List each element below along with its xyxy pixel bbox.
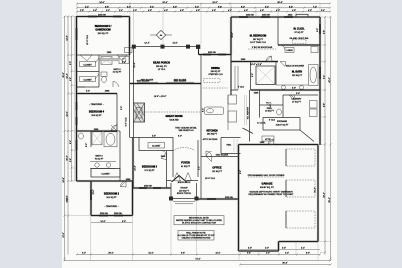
svg-text:3'-4": 3'-4" — [93, 10, 97, 12]
svg-text:10'-0" CLG: 10'-0" CLG — [205, 178, 215, 180]
bedroom4 door — [111, 125, 117, 131]
door bedroom4 swing — [112, 124, 118, 131]
hall wall right — [129, 55, 131, 138]
window mbath right — [319, 67, 321, 79]
wall mbed top — [231, 16, 278, 18]
svg-text:4'-0": 4'-0" — [228, 10, 232, 12]
porch column 1 — [132, 45, 136, 49]
svg-text:70 SQ FT: 70 SQ FT — [95, 158, 105, 160]
wall bedroom3 bottom — [133, 187, 171, 189]
arc garage entry — [268, 139, 274, 145]
linen box — [285, 48, 294, 53]
left dim line outer — [64, 16, 66, 261]
svg-text:165 SQ FT: 165 SQ FT — [207, 134, 218, 136]
svg-text:20'-0": 20'-0" — [108, 253, 113, 255]
svg-text:CLOSET: CLOSET — [83, 64, 92, 66]
shelf header bath3 — [100, 58, 118, 61]
door closet1 swing — [80, 55, 92, 61]
exterior wall gray band — [77, 16, 321, 251]
svg-text:5'-0": 5'-0" — [252, 73, 254, 77]
svg-text:S. CLOS.: S. CLOS. — [257, 122, 266, 124]
svg-text:171 SQ FT: 171 SQ FT — [144, 170, 155, 172]
svg-text:11'-8": 11'-8" — [172, 42, 177, 44]
closet bottom — [77, 86, 100, 88]
svg-text:~ TEMPERED ~: ~ TEMPERED ~ — [104, 206, 120, 208]
window bedroom3 bottom 2 — [153, 187, 161, 189]
wall east of bath2 — [119, 131, 121, 181]
office west wall — [200, 141, 202, 199]
porch column 4 — [196, 45, 200, 49]
diamond marker — [150, 30, 172, 39]
mbed builtin dashed — [248, 48, 276, 50]
wall garage top — [239, 144, 319, 146]
svg-text:110 SQ FT: 110 SQ FT — [210, 71, 221, 73]
stoop bottom — [171, 198, 197, 200]
svg-text:ISLAND / BUILT-INS: ISLAND / BUILT-INS — [290, 37, 309, 40]
wall garage left — [238, 145, 240, 252]
pan walls — [221, 138, 241, 154]
svg-text:3050 SH: 3050 SH — [114, 213, 122, 215]
top dim line 3 — [77, 11, 330, 13]
svg-text:5'-0": 5'-0" — [82, 253, 86, 255]
svg-text:12' CLG: 12' CLG — [158, 69, 166, 71]
svg-text:24'-8": 24'-8" — [63, 177, 65, 182]
arc pwd — [266, 103, 271, 108]
pan shelves — [234, 139, 237, 152]
garage door dashed 2 — [286, 180, 315, 197]
svg-text:11'-4": 11'-4" — [67, 195, 69, 200]
door garage entry swing — [268, 139, 274, 145]
svg-text:41 SQ FT: 41 SQ FT — [181, 166, 191, 168]
svg-text:M. BEDROOM: M. BEDROOM — [250, 35, 267, 38]
svg-text:ALL WALLS TO BE SEALED UP TO 1: ALL WALLS TO BE SEALED UP TO 1/2" — [177, 234, 214, 237]
wall bedroom2 right — [132, 181, 134, 216]
fridge — [228, 95, 237, 104]
wall office bottom — [197, 198, 239, 200]
svg-text:4'-0": 4'-0" — [180, 10, 184, 12]
window bedroom2 left — [90, 190, 92, 200]
door pwd swing — [266, 103, 271, 108]
bath3 vanity — [119, 57, 129, 64]
svg-text:21'-4": 21'-4" — [315, 187, 317, 192]
svg-text:9'-8": 9'-8" — [181, 253, 185, 255]
tub — [309, 65, 319, 86]
extension verticals top — [77, 4, 320, 45]
svg-text:3050 SH: 3050 SH — [100, 213, 108, 215]
great room south wall — [130, 137, 139, 139]
mbed right wall — [277, 17, 279, 45]
svg-text:8'-0": 8'-0" — [292, 88, 296, 90]
svg-text:19'-4": 19'-4" — [162, 2, 167, 4]
svg-text:SEE SHEET A-6: SEE SHEET A-6 — [178, 129, 194, 132]
window bedroom4 left 1 — [76, 102, 78, 110]
wall dining top — [199, 54, 232, 56]
stoop steps — [173, 202, 195, 204]
svg-text:42'-0": 42'-0" — [329, 77, 331, 82]
stoop right wall — [196, 183, 198, 199]
wall bedroom2 bottom — [91, 215, 133, 217]
arc mbed — [266, 56, 272, 62]
stoop column left — [169, 197, 173, 201]
svg-text:MECHANICAL NOTE:: MECHANICAL NOTE: — [189, 216, 210, 219]
left ticks — [64, 16, 73, 260]
top dim line 1 — [77, 3, 330, 5]
svg-text:24'-0": 24'-0" — [99, 2, 104, 4]
svg-text:161 SQ FT: 161 SQ FT — [106, 197, 117, 199]
porch label box — [125, 48, 133, 53]
mechanical note box — [174, 216, 224, 225]
svg-text:12'-8": 12'-8" — [135, 165, 137, 170]
svg-text:BEDROOM 4: BEDROOM 4 — [89, 111, 105, 114]
svg-text:12'-0": 12'-0" — [67, 111, 69, 116]
svg-text:35'-8": 35'-8" — [63, 72, 65, 77]
range — [228, 111, 237, 122]
window bedroom2 bottom 1 — [99, 215, 108, 217]
wall house north behind porch — [130, 83, 201, 85]
svg-text:CLOSET: CLOSET — [152, 146, 161, 148]
svg-text:5'-0": 5'-0" — [86, 91, 90, 93]
pwd walls — [260, 90, 284, 118]
svg-text:5050 SLIDER: 5050 SLIDER — [216, 155, 229, 157]
svg-text:5'-8": 5'-8" — [70, 158, 72, 162]
right ticks — [324, 16, 332, 260]
laundry walls — [283, 95, 318, 118]
svg-text:12'-4": 12'-4" — [134, 62, 136, 67]
svg-text:12'-4": 12'-4" — [144, 42, 149, 44]
arc bedroom2 — [121, 181, 127, 187]
svg-text:187 SQ FT: 187 SQ FT — [253, 39, 264, 41]
wall garage bottom right — [279, 241, 319, 243]
svg-text:4'-0": 4'-0" — [285, 253, 289, 255]
vanity — [276, 84, 308, 86]
bath2 tub — [104, 132, 117, 147]
window bath2 left — [76, 140, 78, 150]
great room west wall lower — [133, 122, 135, 138]
svg-text:418.87 SQ. FT.: 418.87 SQ. FT. — [260, 187, 274, 189]
mclos bottom wall — [278, 44, 320, 46]
wall garage right — [317, 145, 319, 242]
left dim line extra — [74, 16, 76, 181]
svg-text:11'-0": 11'-0" — [215, 253, 220, 255]
svg-text:WALK-IN SHOWER: WALK-IN SHOWER — [286, 65, 305, 68]
window mbed right upper — [319, 24, 321, 34]
garage door dashed 3 — [286, 211, 315, 228]
svg-text:74'-0": 74'-0" — [195, 259, 200, 261]
bath3 door arc — [113, 82, 119, 88]
svg-text:32'-4": 32'-4" — [323, 192, 325, 197]
bedroom4 bottom wall — [77, 130, 118, 132]
storage diagonal — [300, 130, 314, 142]
wall garage step — [278, 242, 280, 252]
hall bottom wall — [77, 86, 86, 88]
bath3 toilet — [101, 72, 107, 77]
svg-text:4'-0": 4'-0" — [148, 10, 152, 12]
bottom ticks — [64, 254, 332, 262]
door mbed swing — [266, 56, 272, 62]
kitchen north counter dashed — [203, 87, 228, 89]
window b5 top 1 — [88, 16, 97, 18]
closet3 label box — [148, 143, 165, 149]
closet2 door — [95, 74, 99, 79]
svg-text:9'-0": 9'-0" — [317, 28, 319, 32]
svg-text:3'-4": 3'-4" — [122, 62, 126, 64]
svg-text:3050 SH: 3050 SH — [262, 14, 270, 16]
svg-text:BEDROOM 5 /: BEDROOM 5 / — [95, 25, 112, 28]
closet3 box — [139, 138, 173, 151]
svg-text:110 SQ FT: 110 SQ FT — [292, 75, 303, 77]
svg-text:30'-8": 30'-8" — [277, 2, 282, 4]
wall left outer — [76, 16, 78, 181]
extension horizontals right — [318, 17, 331, 253]
bedroom3 right wall — [166, 151, 168, 189]
svg-text:12'-4": 12'-4" — [67, 73, 69, 78]
svg-text:BEDROOM 2: BEDROOM 2 — [104, 192, 120, 195]
tick marks top — [76, 3, 331, 13]
door bedroom3 swing — [161, 153, 167, 160]
wall right outer — [319, 17, 321, 145]
svg-text:5'-8": 5'-8" — [152, 136, 156, 138]
svg-text:47 SQ FT: 47 SQ FT — [292, 101, 302, 103]
foyer left wall — [172, 151, 174, 178]
right dim line outer — [330, 17, 332, 261]
office top wall — [201, 156, 239, 158]
svg-text:4'-0": 4'-0" — [308, 10, 312, 12]
foyer arch dashes — [173, 148, 195, 151]
svg-text:OFFICE: OFFICE — [212, 166, 221, 169]
svg-text:REAR PORCH: REAR PORCH — [153, 62, 170, 65]
porch column 3 — [186, 45, 190, 49]
wall kitchen west — [200, 55, 202, 142]
svg-text:16'-0" x 5'-8": 16'-0" x 5'-8" — [250, 64, 262, 66]
svg-text:8'-0": 8'-0" — [306, 253, 310, 255]
chevron side walls — [167, 180, 199, 182]
porch left edge — [133, 47, 135, 84]
svg-text:KITCHEN: KITCHEN — [206, 129, 217, 132]
svg-text:419.87 SQ FT: 419.87 SQ FT — [276, 124, 290, 126]
pwd toilet — [277, 109, 282, 115]
svg-text:9'-8": 9'-8" — [218, 6, 222, 8]
window dining top 1 — [203, 54, 211, 56]
office door arc — [206, 151, 212, 157]
great room dashed ceiling line — [134, 111, 200, 113]
svg-text:8'-4": 8'-4" — [202, 108, 204, 112]
wall finish note box — [178, 230, 214, 240]
svg-text:239 SQ. FT.: 239 SQ. FT. — [156, 66, 168, 68]
svg-text:9' CLG: 9' CLG — [238, 87, 245, 89]
svg-text:4'-0": 4'-0" — [266, 253, 270, 255]
arc bedroom4 — [111, 125, 117, 131]
svg-text:6050 SLIDER: 6050 SLIDER — [137, 81, 150, 83]
svg-text:STORAGE: STORAGE — [277, 120, 288, 123]
bath2 shower — [92, 132, 102, 145]
svg-text:3'-0": 3'-0" — [296, 93, 300, 95]
svg-text:WATER HEATER & HVAC UNIT TO BE: WATER HEATER & HVAC UNIT TO BE LOCATED — [176, 219, 222, 222]
window mbed top 1 — [239, 16, 248, 18]
right dim line inner — [324, 17, 326, 255]
garage door dashed 1 — [286, 149, 315, 166]
bedroom4 right wall — [116, 94, 118, 132]
svg-text:6'-8": 6'-8" — [105, 6, 109, 8]
window mbed top 2 — [261, 16, 270, 18]
arc bedroom3 — [161, 151, 167, 157]
bedroom2 top wall — [91, 180, 133, 182]
arc laundry — [289, 95, 294, 100]
svg-text:41 SQ FT: 41 SQ FT — [113, 72, 123, 74]
svg-text:3050 SH: 3050 SH — [225, 197, 233, 199]
svg-text:19'-0" x 20'-0": 19'-0" x 20'-0" — [154, 96, 167, 98]
svg-text:8'-8": 8'-8" — [289, 6, 293, 8]
svg-text:IN ATTIC SPACE BY CONTRACTOR: IN ATTIC SPACE BY CONTRACTOR — [182, 222, 216, 225]
svg-text:154 SQ FT: 154 SQ FT — [91, 115, 102, 117]
wall mbed left — [230, 17, 232, 55]
svg-text:M. CLOS.: M. CLOS. — [293, 27, 304, 30]
window bedroom5 left — [76, 28, 78, 40]
svg-text:9'-4": 9'-4" — [150, 6, 154, 8]
kitchen diagonal wall — [243, 128, 254, 134]
svg-text:12'-0": 12'-0" — [63, 232, 65, 237]
window bedroom3 bottom 1 — [139, 187, 147, 189]
closet bath2 box — [91, 169, 120, 178]
stoop column right — [195, 197, 199, 201]
svg-text:9'-8": 9'-8" — [247, 253, 251, 255]
garage door tick 2 — [285, 180, 287, 197]
svg-text:PAN.: PAN. — [227, 143, 232, 146]
wall mclos top — [278, 16, 320, 18]
wall step to bedroom2 — [77, 180, 92, 182]
porch column 2 — [161, 45, 165, 49]
svg-text:WALL FINISH NOTE:: WALL FINISH NOTE: — [186, 231, 206, 234]
stoop left wall — [170, 183, 172, 199]
bottom dim line 1 — [77, 254, 320, 256]
svg-text:CLOSET: CLOSET — [83, 79, 92, 81]
svg-text:97 SQ FT: 97 SQ FT — [294, 32, 304, 34]
svg-text:3050 SH: 3050 SH — [246, 14, 254, 16]
svg-text:5'-0": 5'-0" — [70, 61, 72, 65]
closet divider — [77, 71, 100, 73]
svg-text:GARAGE: GARAGE — [262, 182, 273, 185]
svg-text:STEPPED CLG: STEPPED CLG — [208, 74, 223, 76]
svg-text:9'-0": 9'-0" — [173, 6, 177, 8]
bottom dim line 2 — [65, 260, 331, 262]
svg-text:191 SQ. FT.: 191 SQ. FT. — [97, 33, 109, 35]
garage door tick 3 — [285, 211, 287, 228]
extension horizontals left — [65, 17, 91, 216]
svg-text:8'-8": 8'-8" — [323, 103, 325, 107]
svg-text:ATTIC ACCESS: ATTIC ACCESS — [203, 138, 218, 141]
svg-text:6'-0": 6'-0" — [178, 136, 182, 138]
svg-text:21'-0": 21'-0" — [148, 253, 153, 255]
left dim line mid — [67, 16, 69, 255]
svg-text:VAULTED: VAULTED — [169, 118, 179, 121]
wall bedroom3 left — [132, 138, 134, 189]
corridor wall — [120, 180, 133, 182]
hall wall left — [250, 62, 252, 91]
great room west wall upper — [133, 84, 135, 104]
svg-text:REQUIREMENT W/ OWNER PRIOR TO: REQUIREMENT W/ OWNER PRIOR TO CONST. — [248, 194, 293, 196]
wall porch corner connector — [198, 47, 200, 55]
svg-text:M. BATH: M. BATH — [292, 70, 302, 73]
svg-text:30'-8": 30'-8" — [282, 263, 287, 265]
window office bottom — [207, 198, 216, 200]
extension verticals bottom — [91, 200, 319, 261]
mbed bottom wall — [231, 61, 278, 63]
svg-text:BATH 2: BATH 2 — [95, 155, 103, 158]
svg-text:GAMEROOM: GAMEROOM — [95, 28, 110, 31]
svg-text:6'-4": 6'-4" — [70, 140, 72, 144]
walkin closet X — [256, 66, 275, 85]
window bedroom2 bottom 2 — [114, 215, 123, 217]
svg-text:13'-4" CLG: 13'-4" CLG — [87, 35, 89, 45]
svg-text:W.I. PANTRY: W.I. PANTRY — [246, 106, 249, 119]
left dim line inner — [71, 16, 73, 181]
svg-text:3'-0": 3'-0" — [265, 248, 269, 250]
closet1 door — [95, 58, 99, 63]
svg-text:6'-0": 6'-0" — [127, 6, 131, 8]
door closet2 swing — [117, 55, 127, 61]
svg-text:10'-0": 10'-0" — [212, 2, 217, 4]
svg-text:~ TEMPERED ~: ~ TEMPERED ~ — [89, 104, 105, 106]
svg-text:5' BLT-IN BOOKCASE: 5' BLT-IN BOOKCASE — [252, 46, 273, 49]
svg-text:3'-0": 3'-0" — [282, 248, 286, 250]
bottom extra line right — [240, 264, 331, 266]
svg-text:4'-0": 4'-0" — [196, 10, 200, 12]
svg-text:6050 SLIDER: 6050 SLIDER — [174, 81, 187, 83]
svg-text:DINING: DINING — [211, 67, 220, 70]
bedroom4 top wall — [77, 93, 118, 95]
bedroom5 bottom wall — [77, 54, 130, 56]
door mbath swing — [280, 62, 286, 67]
niche mclos top — [296, 14, 308, 17]
bath2 top wall — [77, 130, 121, 132]
svg-text:FOYER: FOYER — [181, 161, 190, 164]
svg-text:9'-0": 9'-0" — [199, 166, 201, 170]
svg-text:7'-0": 7'-0" — [313, 6, 317, 8]
svg-text:UNLESS OTHERWISE NOTED: UNLESS OTHERWISE NOTED — [182, 238, 211, 240]
svg-text:19 SQ FT: 19 SQ FT — [265, 111, 275, 113]
bath2 wc — [79, 133, 84, 139]
bottom small row right — [240, 249, 320, 251]
svg-text:3050 SH: 3050 SH — [144, 186, 152, 188]
svg-text:BRICK PORCH: BRICK PORCH — [177, 193, 192, 195]
svg-text:4'-0": 4'-0" — [164, 10, 168, 12]
island — [205, 107, 224, 115]
mbath south wall — [251, 89, 321, 91]
svg-text:4'-0": 4'-0" — [292, 10, 296, 12]
svg-text:12'-8": 12'-8" — [67, 35, 69, 40]
svg-text:CLOSET: CLOSET — [101, 174, 110, 176]
window dining top 2 — [218, 54, 226, 56]
mbath west wall — [275, 62, 277, 86]
closet1 label box — [80, 62, 96, 67]
svg-text:4'-0": 4'-0" — [260, 10, 264, 12]
svg-text:9' CLG: 9' CLG — [269, 120, 276, 122]
svg-text:5'-4": 5'-4" — [301, 248, 305, 250]
kitchen east wall — [230, 55, 232, 96]
pantry shelves mud — [245, 95, 247, 125]
garage door tick 1 — [285, 149, 287, 166]
window b5 top 2 — [113, 16, 122, 18]
svg-text:ATTIC: ATTIC — [265, 138, 271, 141]
svg-text:PWD.: PWD. — [267, 108, 273, 110]
wall garage bottom left — [239, 250, 279, 252]
svg-text:STOOP: STOOP — [180, 188, 188, 190]
svg-text:2'-8": 2'-8" — [80, 10, 84, 12]
svg-text:BRICK ARCH: BRICK ARCH — [178, 181, 191, 184]
svg-text:111 SQ FT: 111 SQ FT — [212, 171, 223, 173]
window mclos top — [284, 16, 293, 18]
svg-text:3'-0": 3'-0" — [248, 248, 252, 250]
svg-text:BEDROOM 3: BEDROOM 3 — [142, 165, 158, 168]
